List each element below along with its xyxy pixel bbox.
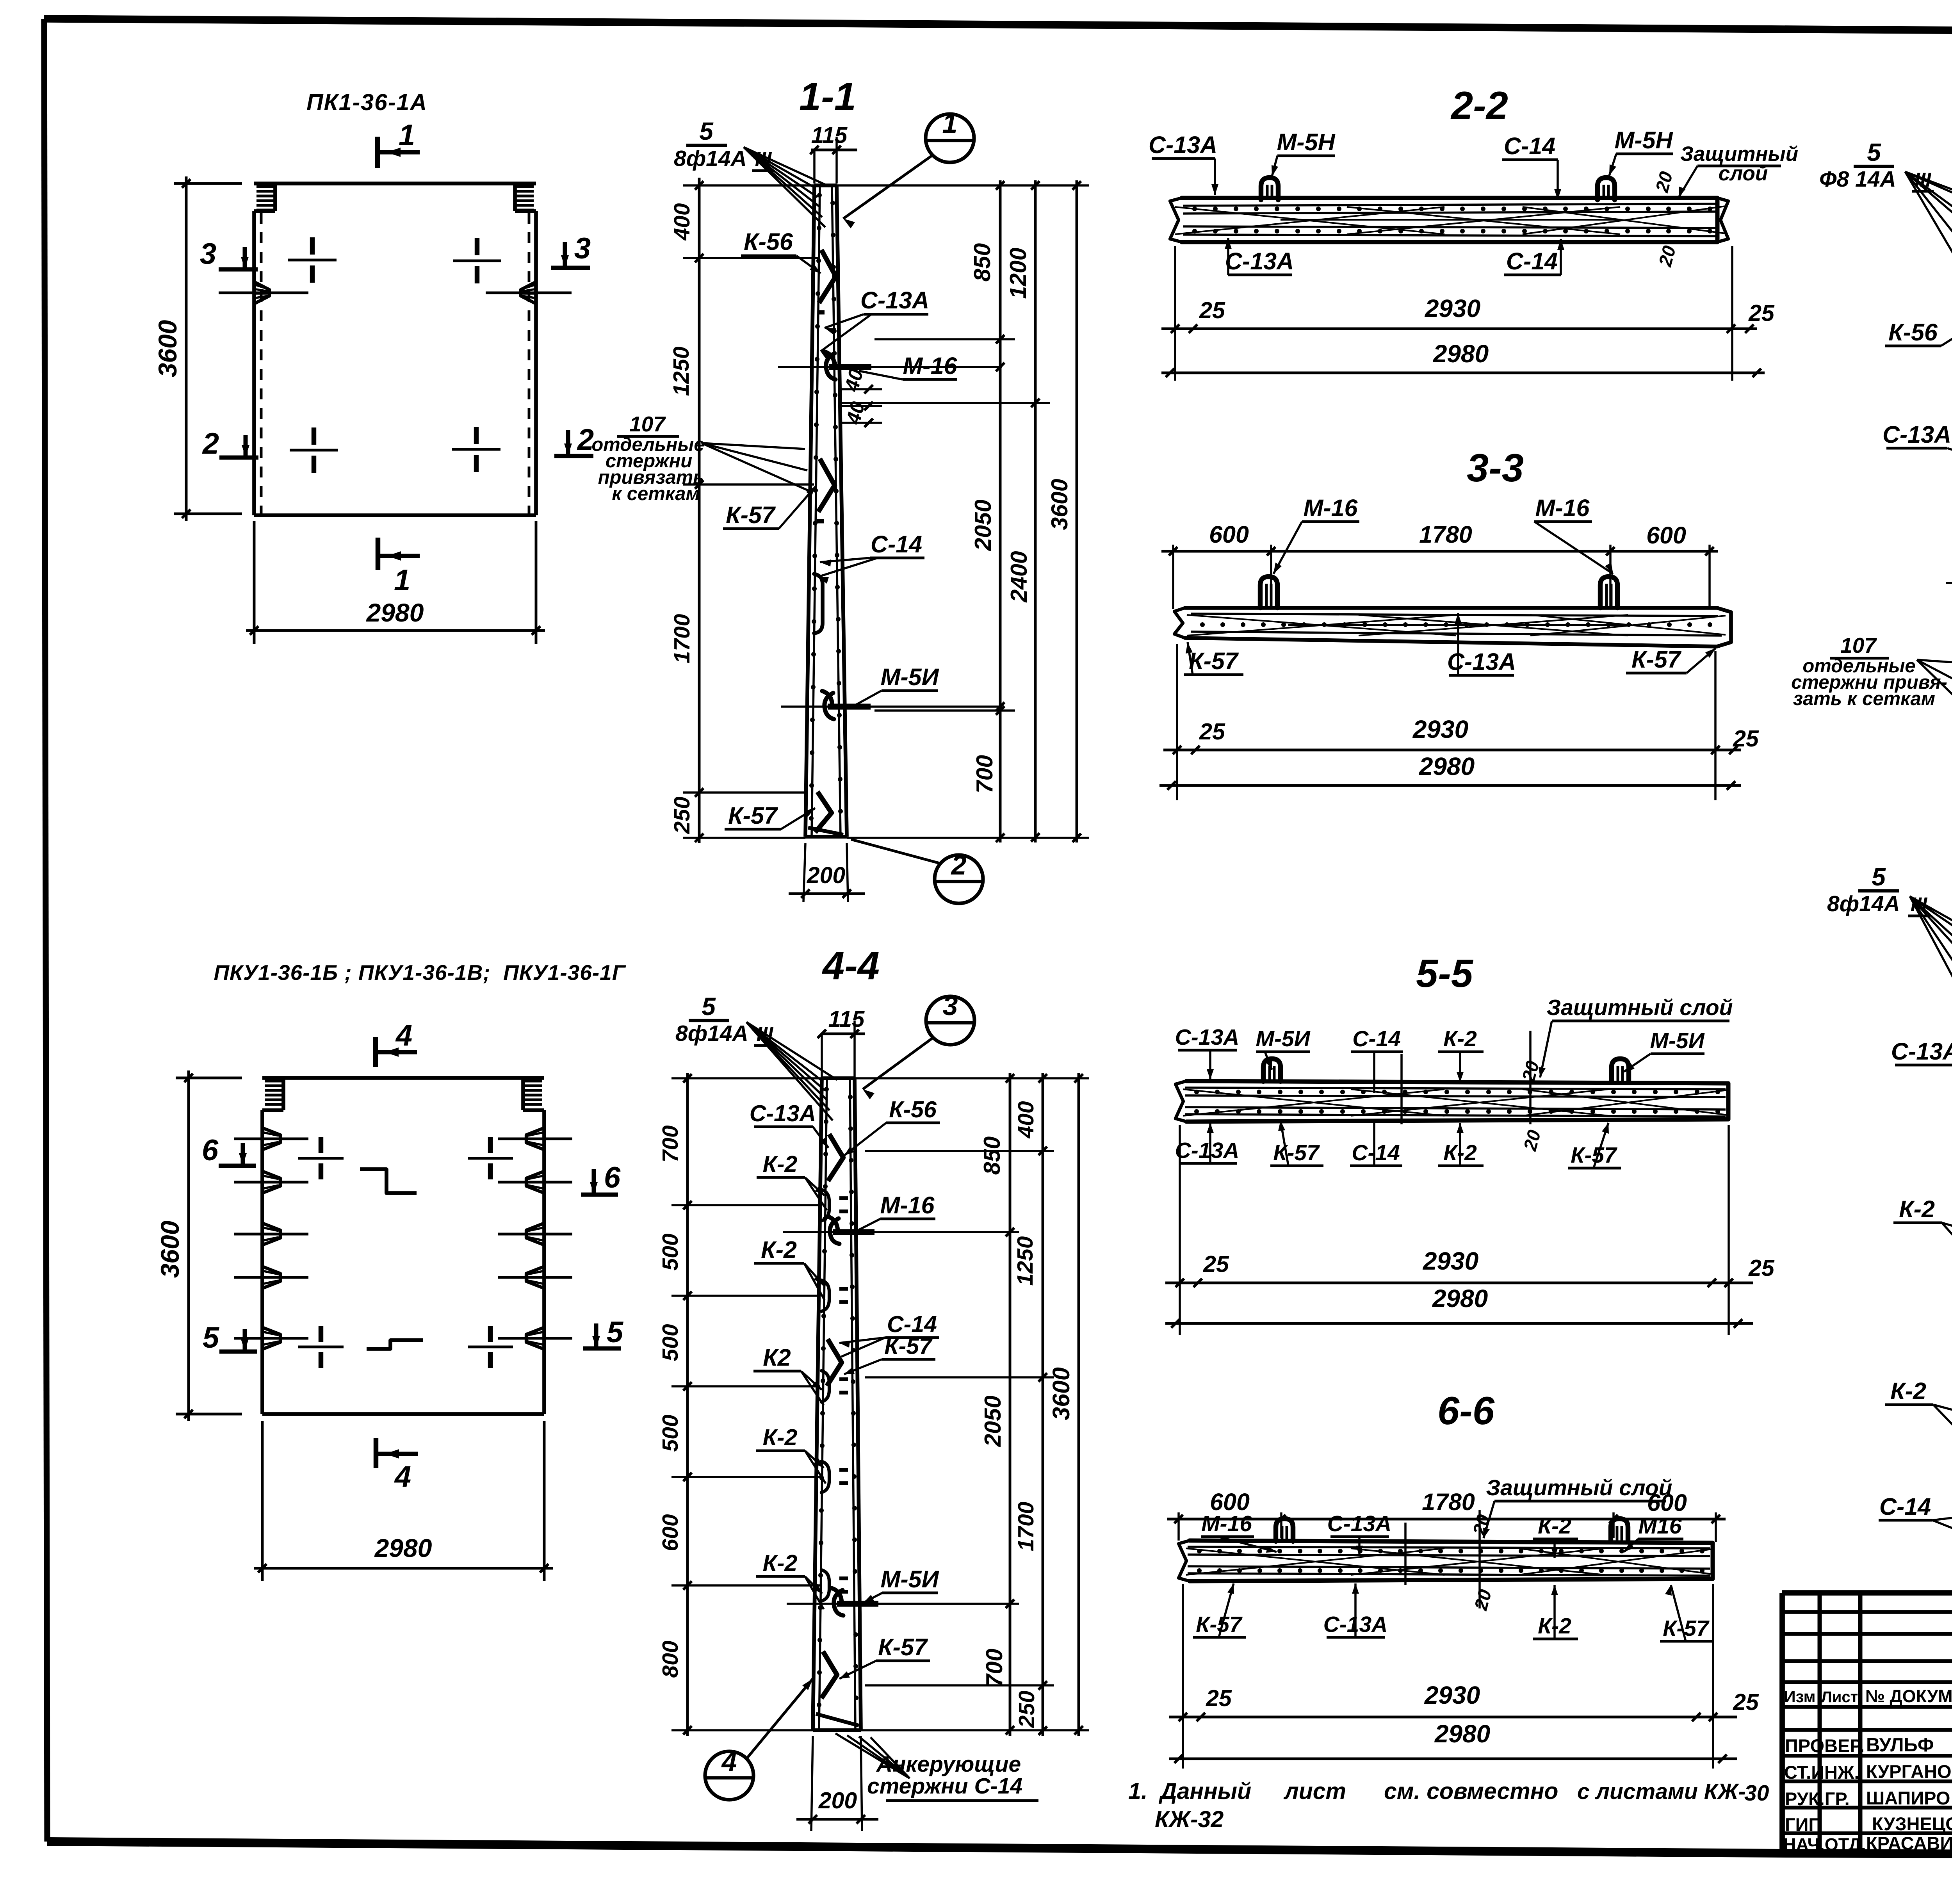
section 6-6 slab outline	[1190, 1541, 1713, 1581]
section mark 1 (bottom)	[376, 538, 380, 570]
svg-text:2980: 2980	[1419, 752, 1475, 780]
svg-text:стержни С-14: стержни С-14	[867, 1774, 1022, 1799]
dim 2980 (5-5)	[1165, 1322, 1753, 1325]
svg-text:4: 4	[395, 1019, 412, 1052]
svg-text:С-14: С-14	[1352, 1140, 1400, 1165]
svg-text:25: 25	[1748, 1255, 1775, 1281]
svg-text:2-2: 2-2	[1450, 84, 1508, 128]
svg-text:2930: 2930	[1424, 1681, 1480, 1709]
svg-text:6-6: 6-6	[1437, 1389, 1495, 1433]
svg-text:С-13А: С-13А	[750, 1101, 816, 1126]
lifting loops (6-6)	[1276, 1519, 1293, 1541]
svg-text:1: 1	[399, 119, 415, 152]
svg-text:РУК.ГР.: РУК.ГР.	[1785, 1788, 1850, 1809]
left dim chain of section 1-1: 400/1250/1700/250	[698, 178, 701, 843]
svg-text:К-2: К-2	[1538, 1514, 1571, 1539]
svg-text:С-13А: С-13А	[1327, 1511, 1392, 1536]
svg-text:250: 250	[670, 796, 695, 834]
svg-text:700: 700	[981, 1649, 1007, 1687]
section 6-6 mesh lines	[1188, 1547, 1710, 1548]
dim 2980 (6-6)	[1169, 1758, 1737, 1760]
svg-text:С-13А: С-13А	[1883, 421, 1951, 448]
svg-text:Защитный слой: Защитный слой	[1547, 995, 1733, 1020]
svg-text:№ ДОКУМ.: № ДОКУМ.	[1865, 1686, 1952, 1706]
title block column lines (left tables)	[1818, 1593, 1822, 1852]
title block left table row lines	[1782, 1610, 1952, 1614]
svg-text:К-57: К-57	[728, 802, 778, 829]
dims 25/2930/25 (2-2)	[1174, 246, 1176, 381]
svg-text:С-14: С-14	[1352, 1026, 1401, 1051]
svg-text:К-57: К-57	[1273, 1140, 1320, 1165]
svg-text:8ф14А: 8ф14А	[674, 146, 747, 171]
svg-text:2050: 2050	[970, 499, 996, 551]
svg-text:600: 600	[1646, 522, 1686, 549]
svg-text:К-56: К-56	[889, 1097, 937, 1122]
lifting loop M-5N left	[1261, 178, 1278, 200]
svg-text:115: 115	[811, 123, 848, 148]
svg-text:М-16: М-16	[880, 1192, 935, 1218]
svg-text:4: 4	[721, 1746, 737, 1777]
svg-text:Защитный слой: Защитный слой	[1486, 1475, 1672, 1500]
svg-text:С-14: С-14	[871, 531, 922, 557]
svg-text:5: 5	[203, 1321, 220, 1354]
svg-text:25: 25	[1199, 297, 1225, 323]
svg-text:1200: 1200	[1005, 248, 1031, 299]
svg-text:К-2: К-2	[761, 1236, 797, 1263]
dim 3600 left of plan 1	[174, 182, 242, 185]
svg-text:С-13А: С-13А	[1175, 1025, 1240, 1050]
panel 1 right keyway wedge	[521, 282, 536, 304]
svg-text:25: 25	[1733, 726, 1759, 752]
svg-text:25: 25	[1203, 1251, 1229, 1277]
svg-text:К-2: К-2	[1890, 1378, 1926, 1404]
top dim chain 600/1780/600 (6-6)	[1167, 1518, 1726, 1521]
svg-text:К-57: К-57	[884, 1333, 933, 1359]
svg-text:С-13А: С-13А	[1149, 132, 1217, 158]
panel plan 2 outline	[262, 1076, 544, 1080]
panel 1 fixture crosses	[288, 259, 337, 262]
panel plan 1 outline	[254, 182, 536, 185]
dim 2980 (3-3)	[1159, 784, 1741, 787]
section 1-1 mesh dots left	[817, 193, 822, 198]
svg-text:500: 500	[658, 1414, 683, 1452]
svg-text:200: 200	[818, 1788, 857, 1813]
svg-text:1700: 1700	[1013, 1501, 1038, 1551]
svg-text:200: 200	[807, 862, 846, 888]
svg-text:8ф14А: 8ф14А	[675, 1021, 748, 1046]
section 5-5 lattice diagonals	[1183, 1089, 1444, 1116]
svg-text:К-56: К-56	[1888, 319, 1938, 346]
svg-text:К-57: К-57	[1631, 646, 1682, 673]
dim 200 below 4-4	[811, 1736, 813, 1831]
svg-text:4-4: 4-4	[822, 944, 880, 988]
K-57 loop mid (4-4)	[827, 1339, 842, 1386]
svg-text:С-14: С-14	[1879, 1493, 1931, 1520]
svg-text:6: 6	[604, 1161, 621, 1194]
section mark 4 (top)	[373, 1037, 378, 1067]
chain 400/1250/1700/250 (4-4)	[1042, 1073, 1044, 1736]
svg-text:ГИП: ГИП	[1785, 1814, 1822, 1835]
svg-text:С-13А: С-13А	[860, 287, 929, 313]
K-57 loop bottom (4-4)	[821, 1651, 837, 1698]
section 1-1 inner mesh lines	[812, 185, 820, 837]
svg-text:3600: 3600	[1047, 479, 1072, 530]
svg-text:107: 107	[629, 412, 666, 436]
svg-text:3600: 3600	[153, 320, 182, 377]
svg-text:СТ.ИНЖ.: СТ.ИНЖ.	[1784, 1762, 1859, 1783]
svg-text:2980: 2980	[366, 598, 424, 627]
section 1-1 mesh dots right	[830, 201, 835, 205]
svg-text:К-2: К-2	[763, 1151, 798, 1177]
svg-text:К-2: К-2	[763, 1550, 798, 1576]
svg-text:К-2: К-2	[1443, 1026, 1477, 1051]
svg-text:М-16: М-16	[1535, 495, 1590, 521]
svg-text:400: 400	[670, 203, 695, 240]
svg-text:К-57: К-57	[1189, 648, 1239, 674]
K-57 loop (bottom) in section 1-1	[815, 792, 832, 832]
svg-text:3: 3	[943, 990, 958, 1021]
svg-text:2980: 2980	[374, 1534, 432, 1562]
svg-text:1. Данный: 1. Данный	[1128, 1778, 1251, 1804]
svg-text:1-1: 1-1	[799, 75, 856, 119]
bottom anchor bars section 1-1	[808, 828, 843, 835]
page border frame	[44, 19, 1952, 34]
mid-lap vertical marks (5-5)	[1400, 1054, 1403, 1124]
svg-text:М-5И: М-5И	[881, 664, 939, 690]
svg-text:2980: 2980	[1432, 1284, 1488, 1313]
top dim chain 600/1780/600 (3-3)	[1161, 550, 1718, 553]
mid-lap vertical marks (6-6)	[1404, 1523, 1407, 1585]
svg-text:107: 107	[1840, 633, 1877, 657]
dims 25/2930/25 (3-3)	[1176, 644, 1178, 800]
svg-text:М-16: М-16	[1304, 495, 1358, 521]
K-56 loop (top) in section 1-1	[819, 250, 836, 303]
svg-text:30: 30	[1744, 1781, 1769, 1806]
M-5I anchor in section 1-1	[822, 691, 832, 707]
svg-text:2: 2	[951, 850, 967, 880]
svg-text:8ф14А: 8ф14А	[1827, 891, 1900, 916]
section 1-1 panel outline	[805, 185, 814, 837]
lifting loops (3-3)	[1260, 577, 1277, 608]
M-16 anchor in section 1-1	[824, 351, 835, 367]
svg-text:3: 3	[200, 237, 216, 271]
svg-text:1780: 1780	[1422, 1489, 1475, 1515]
section 3-3 lattice diagonals	[1187, 615, 1456, 636]
svg-text:М-5И: М-5И	[881, 1566, 939, 1592]
svg-text:к сеткам: к сеткам	[612, 483, 700, 504]
panel 1 top-left notch hatch	[256, 185, 275, 188]
section mark 1 (top)	[375, 137, 380, 168]
section 2-2 slab outline	[1182, 198, 1717, 242]
panel 2 side keyway wedges	[262, 1128, 280, 1150]
svg-text:М-5И: М-5И	[1256, 1026, 1310, 1051]
svg-text:115: 115	[828, 1006, 865, 1032]
svg-text:К-57: К-57	[726, 502, 776, 528]
K-2 hooks (4-4)	[821, 1190, 829, 1221]
dims 25/2930/25 (5-5)	[1179, 1125, 1181, 1335]
svg-text:500: 500	[658, 1233, 683, 1270]
svg-text:КЖ-32: КЖ-32	[1155, 1806, 1224, 1832]
section 3-3 slab outline	[1185, 608, 1731, 647]
svg-text:600: 600	[658, 1514, 683, 1551]
svg-text:3: 3	[574, 232, 591, 265]
svg-text:лист: лист	[1283, 1778, 1346, 1804]
svg-text:Лист: Лист	[1821, 1688, 1858, 1706]
lifting loops (5-5)	[1263, 1059, 1281, 1081]
svg-text:ПРОВЕР.: ПРОВЕР.	[1785, 1735, 1865, 1756]
svg-text:6: 6	[202, 1134, 219, 1167]
section 4-4 mesh dots	[824, 1087, 829, 1092]
bottom anchor stubs (4-4)	[816, 1714, 859, 1726]
svg-text:НАЧ.ОТД.: НАЧ.ОТД.	[1783, 1835, 1866, 1854]
title block outer	[1782, 1590, 1952, 1596]
section 5-5 mesh lines	[1185, 1088, 1726, 1089]
svg-text:2930: 2930	[1423, 1247, 1478, 1275]
svg-text:К-56: К-56	[744, 228, 793, 255]
dim 3600 left of plan 2	[176, 1077, 242, 1079]
svg-text:4: 4	[394, 1460, 411, 1493]
chain 1200/2400	[1034, 180, 1037, 842]
svg-text:500: 500	[658, 1324, 683, 1361]
svg-text:400: 400	[1013, 1101, 1038, 1138]
svg-text:2930: 2930	[1425, 294, 1480, 322]
svg-text:М-5Н: М-5Н	[1614, 127, 1673, 153]
svg-text:1780: 1780	[1419, 521, 1472, 548]
dim 2980 below plan 2	[261, 1421, 264, 1581]
svg-text:КУРГАНОВА: КУРГАНОВА	[1866, 1761, 1952, 1782]
section 4-4 inner mesh lines	[819, 1078, 827, 1730]
svg-text:К-2: К-2	[763, 1425, 798, 1450]
svg-text:КУЗНЕЦОВ: КУЗНЕЦОВ	[1872, 1813, 1952, 1834]
svg-text:М-5Н: М-5Н	[1277, 129, 1336, 155]
svg-text:800: 800	[658, 1640, 683, 1678]
panel 2 top-left notch hatch	[265, 1080, 283, 1083]
svg-text:К-57: К-57	[1663, 1616, 1710, 1641]
svg-text:М-16: М-16	[1201, 1511, 1252, 1536]
svg-text:3-3: 3-3	[1467, 446, 1524, 490]
svg-text:3600: 3600	[1048, 1367, 1074, 1420]
svg-text:1: 1	[942, 108, 958, 139]
svg-text:2050: 2050	[980, 1395, 1006, 1447]
svg-text:Изм: Изм	[1784, 1687, 1815, 1706]
svg-text:1700: 1700	[670, 614, 695, 663]
dims 25/2930/25 (6-6)	[1182, 1584, 1184, 1769]
fan leaders from 8f14A to panel top	[744, 147, 814, 187]
chain 3600	[1076, 180, 1078, 842]
chain 3600 (4-4)	[1078, 1073, 1080, 1736]
section 2-2 lattice diagonals	[1175, 207, 1444, 234]
panel 1 right dashed contour	[528, 213, 531, 515]
svg-text:5: 5	[607, 1316, 624, 1349]
section 3-3 mesh lines	[1191, 614, 1718, 616]
panel 1 left dashed contour	[260, 213, 263, 515]
svg-text:Ф8 14А: Ф8 14А	[1819, 167, 1896, 192]
svg-text:КРАСАВИН: КРАСАВИН	[1866, 1833, 1952, 1854]
svg-text:С-13А: С-13А	[1891, 1038, 1952, 1065]
right dim chains of section 1-1	[837, 184, 1089, 187]
dim 200 below section 1-1	[803, 843, 805, 902]
svg-text:М-16: М-16	[903, 353, 958, 379]
svg-text:5: 5	[1867, 138, 1881, 166]
dim 2980 (2-2)	[1161, 372, 1765, 374]
K-56 loop (4-4)	[828, 1134, 843, 1181]
detail bubble 1	[926, 114, 974, 162]
right dim chains 4-4	[855, 1077, 1089, 1079]
section 2-2 bottom mesh	[1183, 226, 1718, 228]
svg-text:К-57: К-57	[878, 1634, 928, 1660]
left dim chain 4-4: 700/500/500/500/600/800	[686, 1073, 689, 1736]
svg-text:С-14: С-14	[1504, 133, 1555, 159]
panel 2 step joggle lines	[360, 1169, 417, 1193]
svg-text:С-14: С-14	[1506, 248, 1558, 274]
C-14 hook shapes in section 1-1	[814, 574, 823, 633]
svg-text:700: 700	[972, 755, 997, 794]
chain 850/2050/700 (4-4)	[1009, 1073, 1012, 1736]
svg-text:25: 25	[1199, 719, 1225, 745]
dim 2980 below plan 1	[253, 521, 256, 644]
panel 2 fixture crosses	[298, 1157, 344, 1160]
svg-text:К-2: К-2	[1899, 1196, 1935, 1222]
detail bubble 4 (section 4-4)	[705, 1751, 753, 1800]
svg-text:25: 25	[1206, 1685, 1232, 1711]
svg-text:5-5: 5-5	[1416, 952, 1474, 996]
svg-text:ШАПИРО: ШАПИРО	[1866, 1788, 1950, 1808]
svg-text:ВУЛЬФ: ВУЛЬФ	[1866, 1735, 1934, 1756]
svg-text:5: 5	[1872, 863, 1886, 891]
svg-text:3600: 3600	[155, 1220, 184, 1278]
40/40 cover dims in section 1-1	[839, 388, 882, 390]
K-57 loop (middle) in section 1-1	[818, 459, 835, 512]
section mark 4 (bottom)	[374, 1438, 378, 1468]
section 2-2 top mesh	[1183, 204, 1718, 206]
chain 850/2050/700	[999, 180, 1002, 842]
svg-text:850: 850	[969, 243, 995, 282]
svg-text:5: 5	[699, 117, 714, 145]
svg-text:см. совместно: см. совместно	[1384, 1778, 1558, 1804]
svg-text:ПК1-36-1А: ПК1-36-1А	[306, 89, 427, 115]
svg-text:2400: 2400	[1006, 551, 1032, 602]
svg-text:5: 5	[702, 992, 716, 1021]
svg-text:850: 850	[979, 1136, 1005, 1175]
svg-text:2: 2	[202, 427, 219, 460]
svg-text:с листами КЖ-: с листами КЖ-	[1577, 1779, 1746, 1804]
section 6-6 lattice diagonals	[1186, 1548, 1444, 1575]
axis line at M-16 level	[778, 366, 1002, 368]
lifting loop M-5N right	[1598, 178, 1615, 200]
detail bubble 2	[935, 855, 983, 903]
section 4-4 panel outline	[813, 1078, 822, 1730]
svg-text:С-13А: С-13А	[1175, 1138, 1240, 1163]
M-5I anchor (4-4)	[832, 1588, 842, 1604]
svg-text:М-5И: М-5И	[1650, 1028, 1704, 1053]
svg-text:К2: К2	[763, 1344, 791, 1371]
panel 1 left keyway wedge	[254, 282, 269, 304]
M-16 anchor (4-4)	[828, 1216, 838, 1232]
panel 1 top-right notch hatch	[515, 185, 534, 188]
svg-text:М16: М16	[1639, 1514, 1682, 1539]
section 5-5 slab outline	[1186, 1081, 1728, 1122]
svg-text:2980: 2980	[1434, 1720, 1490, 1748]
svg-text:1250: 1250	[669, 346, 694, 396]
svg-text:2980: 2980	[1433, 340, 1489, 368]
svg-text:1250: 1250	[1013, 1236, 1038, 1286]
svg-text:1: 1	[394, 564, 410, 597]
svg-text:25: 25	[1748, 300, 1775, 326]
svg-text:25: 25	[1733, 1689, 1759, 1715]
svg-text:2930: 2930	[1412, 715, 1468, 743]
svg-text:зать к сеткам: зать к сеткам	[1793, 688, 1935, 709]
svg-text:600: 600	[1209, 521, 1249, 548]
svg-text:250: 250	[1014, 1690, 1039, 1728]
detail bubble 3	[926, 996, 974, 1045]
svg-text:700: 700	[658, 1125, 683, 1162]
svg-text:С-13А: С-13А	[1225, 248, 1294, 274]
panel 2 top-right notch hatch	[523, 1080, 542, 1083]
svg-text:ПКУ1-36-1Б ; ПКУ1-36-1В; ПКУ1: ПКУ1-36-1Б ; ПКУ1-36-1В; ПКУ1-36-1Г	[214, 960, 626, 985]
